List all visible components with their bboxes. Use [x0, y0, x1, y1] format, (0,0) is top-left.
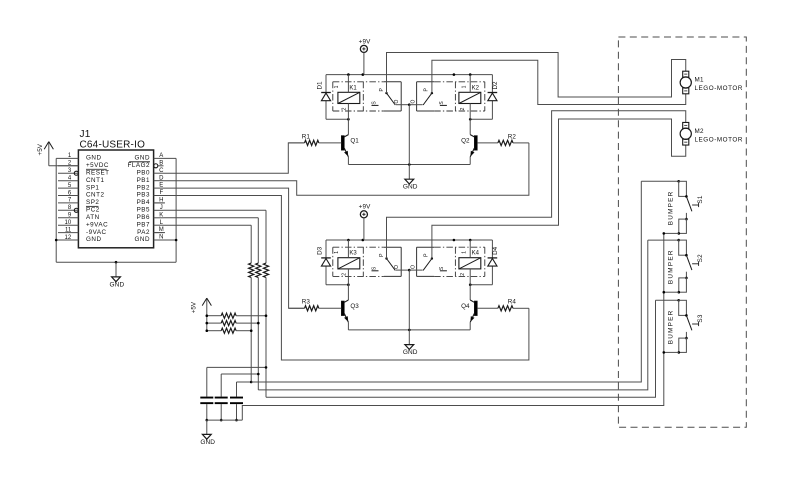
svg-text:2: 2 [341, 107, 347, 110]
svg-text:GND: GND [200, 439, 215, 446]
svg-text:R3: R3 [302, 299, 311, 306]
svg-text:PB0: PB0 [137, 169, 150, 176]
svg-text:PB5: PB5 [137, 207, 150, 214]
svg-text:M2: M2 [695, 128, 704, 135]
svg-text:10: 10 [65, 220, 72, 226]
svg-text:1: 1 [461, 85, 467, 88]
svg-text:BUMPER: BUMPER [667, 309, 674, 344]
svg-text:K1: K1 [349, 85, 357, 91]
svg-text:SP2: SP2 [86, 199, 99, 206]
svg-text:R1: R1 [302, 133, 311, 140]
svg-text:S2: S2 [697, 254, 704, 262]
svg-text:+9V: +9V [359, 204, 372, 211]
svg-text:Q3: Q3 [350, 303, 359, 310]
svg-text:CNT1: CNT1 [86, 177, 104, 184]
svg-text:R2: R2 [508, 133, 517, 140]
svg-text:1: 1 [334, 85, 340, 88]
svg-text:+5VDC: +5VDC [86, 162, 109, 169]
svg-text:C64-USER-IO: C64-USER-IO [80, 139, 146, 150]
svg-text:Q1: Q1 [350, 138, 359, 145]
svg-text:O: O [410, 99, 416, 103]
svg-text:F: F [159, 190, 163, 196]
svg-text:A: A [159, 153, 163, 159]
svg-text:RESET: RESET [86, 169, 110, 176]
svg-text:PB7: PB7 [137, 221, 150, 228]
svg-text:O: O [410, 265, 416, 269]
svg-text:+5V: +5V [37, 143, 44, 155]
svg-text:PB1: PB1 [137, 177, 150, 184]
svg-text:C: C [159, 168, 164, 174]
svg-text:PB3: PB3 [137, 192, 150, 199]
svg-text:O: O [394, 265, 400, 269]
svg-text:LEGO-MOTOR: LEGO-MOTOR [695, 136, 743, 143]
svg-text:GND: GND [86, 155, 102, 162]
svg-text:B: B [159, 160, 163, 166]
svg-text:K3: K3 [349, 251, 357, 257]
svg-text:GND: GND [110, 281, 125, 288]
svg-text:N: N [159, 235, 163, 241]
svg-text:12: 12 [65, 235, 72, 241]
svg-text:PB6: PB6 [137, 214, 150, 221]
svg-text:R4: R4 [508, 299, 517, 306]
svg-text:2: 2 [341, 273, 347, 276]
svg-text:GND: GND [403, 349, 418, 356]
svg-text:GND: GND [135, 155, 151, 162]
svg-text:2: 2 [460, 273, 466, 276]
svg-text:BUMPER: BUMPER [667, 249, 674, 284]
svg-text:GND: GND [135, 236, 151, 243]
svg-text:GND: GND [403, 184, 418, 191]
svg-text:D1: D1 [317, 81, 324, 90]
svg-text:Q4: Q4 [461, 303, 470, 310]
svg-text:SP1: SP1 [86, 184, 99, 191]
svg-text:+5V: +5V [190, 301, 197, 313]
svg-text:J: J [160, 205, 163, 211]
svg-text:1: 1 [334, 251, 340, 254]
svg-text:GND: GND [86, 236, 102, 243]
svg-text:PB4: PB4 [137, 199, 150, 206]
svg-text:-9VAC: -9VAC [86, 229, 107, 236]
svg-text:S1: S1 [697, 195, 704, 203]
svg-text:D4: D4 [492, 246, 499, 255]
svg-text:2: 2 [460, 107, 466, 110]
svg-text:M1: M1 [695, 77, 704, 84]
svg-text:E: E [159, 183, 163, 189]
svg-text:+9VAC: +9VAC [86, 221, 108, 228]
svg-text:PA2: PA2 [137, 229, 150, 236]
svg-text:K4: K4 [472, 251, 480, 257]
svg-text:D2: D2 [492, 81, 499, 90]
svg-text:PB2: PB2 [137, 184, 150, 191]
svg-text:LEGO-MOTOR: LEGO-MOTOR [695, 85, 743, 92]
svg-text:K: K [159, 212, 163, 218]
svg-text:O: O [394, 99, 400, 103]
svg-text:Q2: Q2 [461, 138, 470, 145]
svg-text:PC2: PC2 [86, 207, 100, 214]
svg-text:CNT2: CNT2 [86, 192, 104, 199]
svg-text:+9V: +9V [359, 38, 372, 45]
svg-text:D: D [159, 175, 164, 181]
svg-text:11: 11 [65, 227, 72, 233]
svg-text:BUMPER: BUMPER [667, 190, 674, 225]
svg-text:S3: S3 [697, 314, 704, 322]
svg-text:ATN: ATN [86, 214, 100, 221]
svg-text:FLAG2: FLAG2 [128, 162, 150, 169]
svg-text:1: 1 [461, 251, 467, 254]
svg-text:K2: K2 [472, 85, 480, 91]
svg-text:D3: D3 [317, 246, 324, 255]
